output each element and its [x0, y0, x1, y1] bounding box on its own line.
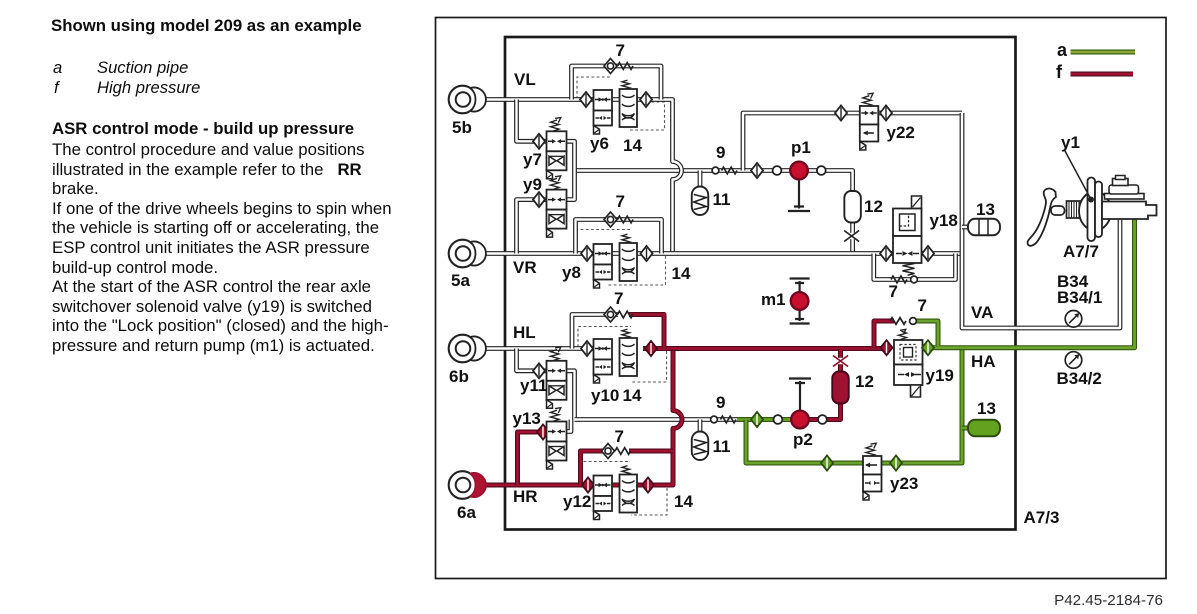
label B34 [1057, 273, 1088, 290]
pump m1 [790, 279, 810, 324]
pressure sensor B34/2 [1065, 352, 1082, 369]
check valve diamond at y10 outlet [645, 341, 657, 356]
label y9 [523, 176, 542, 193]
label 14 y10 [623, 387, 642, 404]
check valve diamond at y19 left [881, 340, 893, 355]
drain y6 drain [594, 126, 600, 135]
title [51, 16, 362, 36]
wire suction loop via y23 [746, 348, 962, 463]
label 7 y12 [615, 428, 624, 445]
ball p1 outlet ball [817, 166, 826, 175]
label 11 front [713, 191, 731, 208]
label 7 y6 [616, 42, 625, 59]
check valve diamond at y7 inlet [533, 134, 545, 149]
label legend a [1057, 41, 1067, 59]
pedal pushrod [1051, 206, 1065, 215]
pressure relief valve 14 of y6 [622, 80, 630, 89]
wire y11 return bus [565, 371, 575, 420]
wire y9 feed [517, 200, 550, 254]
damper 13 front [968, 219, 1000, 236]
label y6 [590, 135, 609, 152]
dashed box y10 unit [578, 327, 667, 383]
pressure relief valve 14 of y8 [622, 234, 630, 243]
label y13 [513, 410, 541, 427]
pressure relief valve 14 of y10 [622, 329, 630, 338]
check valve diamond at y8 outlet [641, 246, 653, 261]
label 7 y18 [889, 283, 898, 300]
bellows [1067, 201, 1082, 218]
label A7/3 [1024, 509, 1060, 526]
legend f pressure line [1071, 72, 1134, 77]
outer frame [436, 18, 1167, 579]
throttle 7 of y18 [891, 276, 907, 283]
throttle 7 of y6 [618, 63, 634, 70]
ball p2 outlet ball [818, 415, 827, 424]
wire line to y22 [743, 113, 962, 171]
solenoid valve y12 body [594, 476, 613, 497]
wire y7 feed [517, 100, 550, 142]
throttle 7 of y19 [890, 318, 906, 325]
ball p1 inlet ball [773, 166, 782, 175]
wire damper 13 stub front [962, 225, 972, 230]
solenoid valve y18 [912, 196, 922, 209]
paragraph [52, 140, 365, 160]
label p2 [793, 431, 813, 448]
spring y11 spring [551, 347, 561, 361]
wire suction pipe a to pump p2 [737, 417, 794, 422]
label legend f [1056, 63, 1062, 81]
wheel sensor 5b [449, 86, 477, 114]
label y10 [591, 387, 619, 404]
damper 12 front [844, 191, 861, 223]
label 14 y6 [623, 137, 642, 154]
pressure sensor B34/1 [1065, 311, 1082, 328]
label B34/1 [1057, 289, 1102, 306]
label 11 rear [713, 438, 731, 455]
label VL [514, 71, 536, 88]
check valve diamond at y19 right [922, 340, 934, 355]
label 9 rear [716, 394, 725, 411]
wire y12 bypass red right [629, 449, 673, 454]
check valve diamond at y18 right [922, 246, 934, 261]
wire front return to pump p1 and damper 12 [575, 171, 853, 254]
wire HR high pressure with crossover hop [479, 349, 682, 485]
label y12 [563, 493, 591, 510]
hydraulic unit frame A7/3 [505, 37, 1016, 530]
label VR [513, 259, 537, 276]
solenoid valve y19 [899, 329, 907, 339]
label 13 rear [977, 400, 996, 417]
accumulator 11 front [692, 187, 709, 216]
check valve diamond at y23 right [890, 456, 902, 471]
spring y23 spring [866, 443, 876, 457]
check valve diamond at y12 outlet [642, 478, 654, 493]
wire pump p2 discharge via damper 12 [806, 349, 841, 420]
damper 13 rear [968, 420, 1000, 437]
label HL [513, 324, 536, 341]
check valve diamond at y13 inlet [537, 425, 549, 440]
damper 12 rear [832, 372, 849, 404]
label 12 front [864, 198, 883, 215]
spring y13 spring [551, 408, 561, 422]
drain y8 drain [594, 280, 600, 289]
wheel sensor 5a [449, 240, 477, 268]
label y23 [890, 475, 918, 492]
label VA [971, 304, 993, 321]
label 5a [451, 272, 470, 289]
bypass check valve 7 of y6 [604, 59, 617, 74]
pump p1 [788, 179, 810, 212]
legend item a [53, 58, 62, 78]
booster body [1079, 192, 1111, 231]
wire VA line to master cylinder [962, 113, 1120, 328]
wire y10 bypass red part [629, 315, 664, 349]
wire y12 bypass red left [581, 451, 607, 485]
wire accumulator 11 stub front [698, 171, 703, 189]
label m1 [761, 291, 786, 308]
heading [52, 119, 354, 139]
check valve diamond at y22 left [835, 106, 847, 121]
check valve diamond at y12 inlet [582, 478, 594, 493]
label y1 [1061, 134, 1080, 151]
check valve diamond at p1 suction [751, 163, 763, 178]
label y19 [926, 367, 954, 384]
solenoid valve y6 body [594, 90, 613, 111]
check ball 7 of y18 [911, 276, 918, 283]
wire VR circuit to y18 [484, 251, 963, 256]
check ball 9 front [712, 167, 719, 174]
label y8 [562, 264, 581, 281]
label 9 front [716, 144, 725, 161]
dashed box y12 unit [579, 462, 667, 516]
wire accumulator 11 stub rear [698, 420, 703, 434]
solenoid valve y8 body [594, 244, 613, 265]
wire y7-y9 return bus [565, 141, 575, 199]
check ball 9 rear [711, 416, 718, 423]
check valve diamond at y23 left [821, 456, 833, 471]
brake pedal [1027, 189, 1055, 246]
label 6b [449, 368, 469, 385]
label image number [1054, 593, 1163, 608]
wire y10 bypass white part [572, 315, 618, 349]
check valve diamond at y9 inlet [533, 192, 545, 207]
ball p2 inlet ball [774, 415, 783, 424]
drain y7 drain [547, 170, 553, 179]
label y18 [930, 212, 958, 229]
dashed box y8 unit [577, 230, 666, 286]
legend item f [54, 78, 59, 98]
wire y6 bypass 7 [572, 66, 662, 100]
wire rear suction line [575, 417, 740, 422]
label y7 [523, 151, 542, 168]
reservoir [1109, 185, 1139, 194]
drain y11 drain [547, 400, 553, 409]
wire HL circuit [484, 346, 594, 351]
legend a suction line [1071, 50, 1136, 55]
drain y23 drain [863, 492, 869, 501]
bypass check valve 7 of y8 [604, 212, 617, 227]
wheel sensor 6a [449, 471, 477, 499]
label 7 y10 [614, 290, 623, 307]
wire y19 bypass red part [874, 321, 894, 349]
drain y22 drain [860, 142, 866, 151]
pump p2 [789, 379, 811, 412]
spring y22 spring [863, 93, 873, 107]
wire rear high pressure line to y19 [643, 346, 888, 351]
wire y18 bypass 7 [874, 254, 956, 280]
wire y13 return jog [565, 420, 571, 432]
reservoir flange [1105, 194, 1145, 200]
label HA [971, 353, 996, 370]
label B34/2 [1057, 370, 1102, 387]
master cylinder body [1102, 202, 1157, 220]
spring y9 spring [551, 176, 561, 190]
drain y13 drain [547, 461, 553, 470]
wheel sensor 6b [449, 335, 477, 363]
check valve diamond at y8 inlet [581, 246, 593, 261]
accumulator 11 rear [692, 432, 709, 461]
drain y9 drain [547, 229, 553, 238]
check valve diamond at y6 outlet [640, 92, 652, 107]
label A7/7 [1063, 243, 1099, 260]
drain y10 drain [594, 375, 600, 384]
wire y11 feed [517, 349, 550, 371]
label 6a [457, 504, 476, 521]
label y11 [520, 377, 547, 394]
bypass check valve 7 of y12 [602, 444, 615, 459]
solenoid valve y10 body [594, 339, 613, 360]
wire y8 bypass 7 [576, 220, 662, 254]
label p1 [791, 139, 811, 156]
check ball 7 of y19 [910, 318, 917, 325]
dashed box y6 unit [577, 77, 665, 130]
label 7 y8 [616, 193, 625, 210]
restrictor rear 12 restrictor [835, 358, 846, 364]
pressure relief valve 14 of y12 [622, 466, 630, 475]
label HR [513, 488, 538, 505]
wire y19 bypass green part [916, 321, 938, 346]
throttle 9 throttle rear [721, 416, 737, 423]
check valve diamond at y22 right [880, 106, 892, 121]
label 12 rear [855, 373, 874, 390]
booster diaphragm plates [1088, 178, 1096, 242]
check valve diamond at y11 inlet [533, 363, 545, 378]
spring y7 spring [551, 118, 561, 132]
bypass check valve 7 of y10 [604, 307, 617, 322]
label 7 y19 [918, 297, 927, 314]
label 5b [452, 119, 472, 136]
throttle 7 of y10 [618, 311, 634, 318]
check valve diamond at y10 inlet [581, 341, 593, 356]
throttle 7 of y12 [615, 448, 631, 455]
label 13 front [976, 201, 995, 218]
throttle 9 throttle front [722, 167, 738, 174]
wire VL circuit with crossover hop [484, 100, 682, 254]
label y22 [887, 124, 915, 141]
check valve diamond at y6 inlet [580, 92, 592, 107]
wire HA suction line to master cylinder [928, 219, 1135, 348]
label 14 y12 [674, 493, 693, 510]
wire damper 13 stub rear [962, 426, 972, 431]
drain y12 drain [594, 511, 600, 520]
restrictor front 12 restrictor [846, 233, 857, 239]
check valve diamond at y18 left [880, 246, 892, 261]
label 14 y8 [672, 265, 691, 282]
y1 leader [1065, 151, 1091, 199]
check valve diamond at p2 suction [751, 412, 763, 427]
wire y13 feed [518, 432, 550, 485]
booster cone [1081, 198, 1087, 222]
throttle 7 of y8 [618, 216, 634, 223]
